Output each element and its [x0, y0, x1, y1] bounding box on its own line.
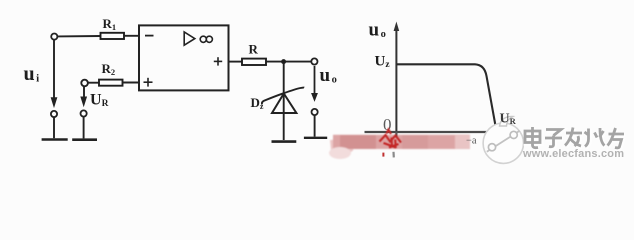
wire: R1 to op-amp inverting input [124, 35, 140, 37]
UR lower terminal [81, 110, 87, 116]
svg-text:−a: −a [466, 136, 477, 147]
resistor R [242, 59, 266, 65]
zener diode Dz anode triangle [272, 94, 296, 114]
logo top hook [500, 116, 514, 126]
svg-text:R: R [249, 42, 259, 57]
UR arrow head [81, 97, 86, 106]
UR source terminal (left of R2) [81, 80, 88, 87]
wire: ui terminal down [53, 40, 55, 98]
logo small node circle upper [510, 131, 517, 138]
censor band darker block 1 [340, 135, 376, 149]
wire: UR terminal down [83, 87, 85, 97]
y-axis arrow head [394, 22, 400, 32]
ui lower terminal [51, 111, 57, 117]
resistor R1 [101, 33, 125, 39]
char shao [585, 128, 605, 147]
censor band base [333, 135, 470, 149]
ground (uo) [304, 137, 327, 139]
censor band left tail [330, 138, 356, 158]
ground (UR) [72, 138, 97, 141]
transfer curve [397, 64, 497, 128]
junction node (output/zener) [281, 59, 286, 64]
ui arrow head [51, 98, 56, 107]
ground (zener) [272, 140, 297, 143]
wire: op-amp output to R [229, 61, 243, 63]
output lower terminal [312, 109, 318, 115]
logo small node circle lower [488, 144, 495, 151]
op-amp plus input sign [144, 78, 153, 87]
char zi [545, 130, 562, 147]
op-amp output plus sign [214, 57, 222, 65]
output terminal (uo top) [311, 58, 317, 64]
svg-text:www.elecfans.com: www.elecfans.com [522, 148, 624, 160]
ground (ui) [42, 138, 68, 141]
wire: R to output terminal [266, 61, 311, 63]
y-axis stub in band [395, 132, 397, 137]
y-axis [395, 27, 397, 133]
char you [608, 128, 625, 148]
gray dash below band (y-axis continuation) [392, 152, 394, 158]
wire: UR terminal to R2 [88, 82, 99, 84]
resistor R2 [99, 80, 123, 86]
wire: terminal to R1 [57, 35, 100, 37]
wire: R2 to op-amp non-inverting input [123, 82, 140, 84]
censor band darker block 2 [402, 135, 428, 149]
wire: junction down through zener to ground [283, 64, 285, 141]
logo circle [483, 123, 523, 163]
wire: UR lower terminal to ground [83, 117, 85, 139]
zener diode Dz cathode bar [262, 88, 304, 105]
op-amp gain symbol (triangle + infinity) [184, 32, 212, 45]
x-axis [365, 131, 488, 133]
censor band light block right [455, 135, 470, 148]
wire: lower terminal to ground [314, 115, 316, 136]
red dash below band [382, 153, 384, 157]
uo arrow (output voltage) [312, 66, 317, 101]
char fa [565, 128, 582, 147]
red scribble mark [380, 130, 402, 149]
wire: ui lower terminal to ground [53, 117, 55, 138]
logo diagonal link line [487, 131, 520, 152]
censor band pale smear below [329, 147, 351, 159]
op-amp U1 (rectangular body) [139, 25, 229, 90]
watermark CJK text (stylized strokes, embossed) [526, 128, 625, 149]
char dian [525, 127, 540, 148]
input terminal (top-left, ui+) [51, 34, 57, 40]
op-amp minus input sign [145, 35, 154, 37]
y-axis stub below x-axis [395, 132, 397, 138]
